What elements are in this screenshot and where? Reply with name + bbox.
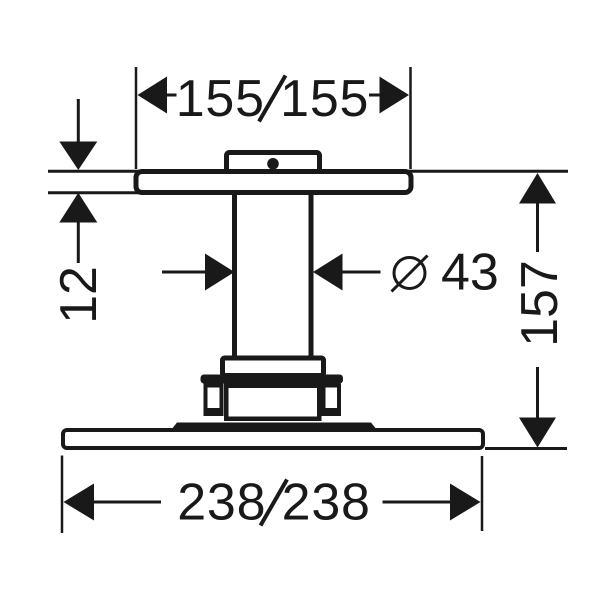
svg-text:43: 43: [441, 244, 499, 302]
dim 155/155 right dash: [369, 94, 381, 97]
flange right chamfer: [337, 381, 343, 388]
ceiling plate: [136, 172, 411, 193]
left leg window: [206, 386, 222, 415]
dim d43 left shaft: [162, 271, 206, 274]
right leg bottom cap: [322, 408, 342, 416]
mounting dot: [267, 158, 279, 170]
dim 238/238 right arrow: [450, 484, 481, 521]
spray plate hub strip: [171, 423, 377, 431]
dim 12 upper shaft: [77, 99, 80, 142]
dim 12 up arrow: [59, 193, 97, 223]
dim 238/238 left shaft: [93, 501, 162, 504]
dim 238/238 left arrow: [64, 484, 95, 521]
dim 157 down arrow: [519, 418, 556, 448]
dim 157 lower shaft: [536, 367, 539, 418]
dim 238/238 slash: [261, 480, 288, 526]
dim 155/155 left dash: [165, 94, 177, 97]
dim 12 down arrow: [59, 142, 97, 171]
dim 155/155 left arrow: [138, 77, 168, 114]
svg-text:12: 12: [50, 266, 108, 324]
dim 238/238 left extension line: [61, 456, 64, 534]
dim 155/155 right extension line: [409, 67, 412, 169]
left leg bottom cap: [204, 408, 224, 416]
pipe right wall: [309, 193, 314, 358]
right leg window: [324, 386, 340, 415]
dim 155/155 left extension line: [135, 67, 138, 169]
dim d43 diameter circle: [394, 258, 425, 289]
connector upper box: [223, 358, 324, 376]
dim 157 upper shaft: [536, 204, 539, 253]
dim 12 lower shaft: [77, 223, 80, 264]
plate bottom reference line (left): [48, 191, 140, 194]
plate bottom reference line (right): [485, 447, 567, 450]
flange left chamfer: [201, 381, 207, 388]
dim 238/238 right extension line: [481, 456, 484, 531]
spray plate: [63, 430, 483, 448]
dim d43 right shaft: [341, 271, 381, 274]
connector nut body: [226, 386, 319, 419]
dim d43 right arrow: [313, 254, 343, 291]
dim d43 diameter slash: [392, 256, 428, 292]
ceiling line: [48, 170, 568, 173]
pipe left wall: [232, 193, 237, 358]
dim 157 up arrow: [519, 173, 556, 204]
dim 155/155 slash: [259, 76, 286, 122]
dim d43 left arrow: [205, 254, 235, 291]
dim 238/238 right shaft: [383, 501, 453, 504]
connector flange bar: [201, 375, 344, 384]
dim 155/155 right arrow: [380, 77, 410, 114]
svg-text:157: 157: [511, 260, 569, 347]
top mounting box: [227, 153, 320, 177]
